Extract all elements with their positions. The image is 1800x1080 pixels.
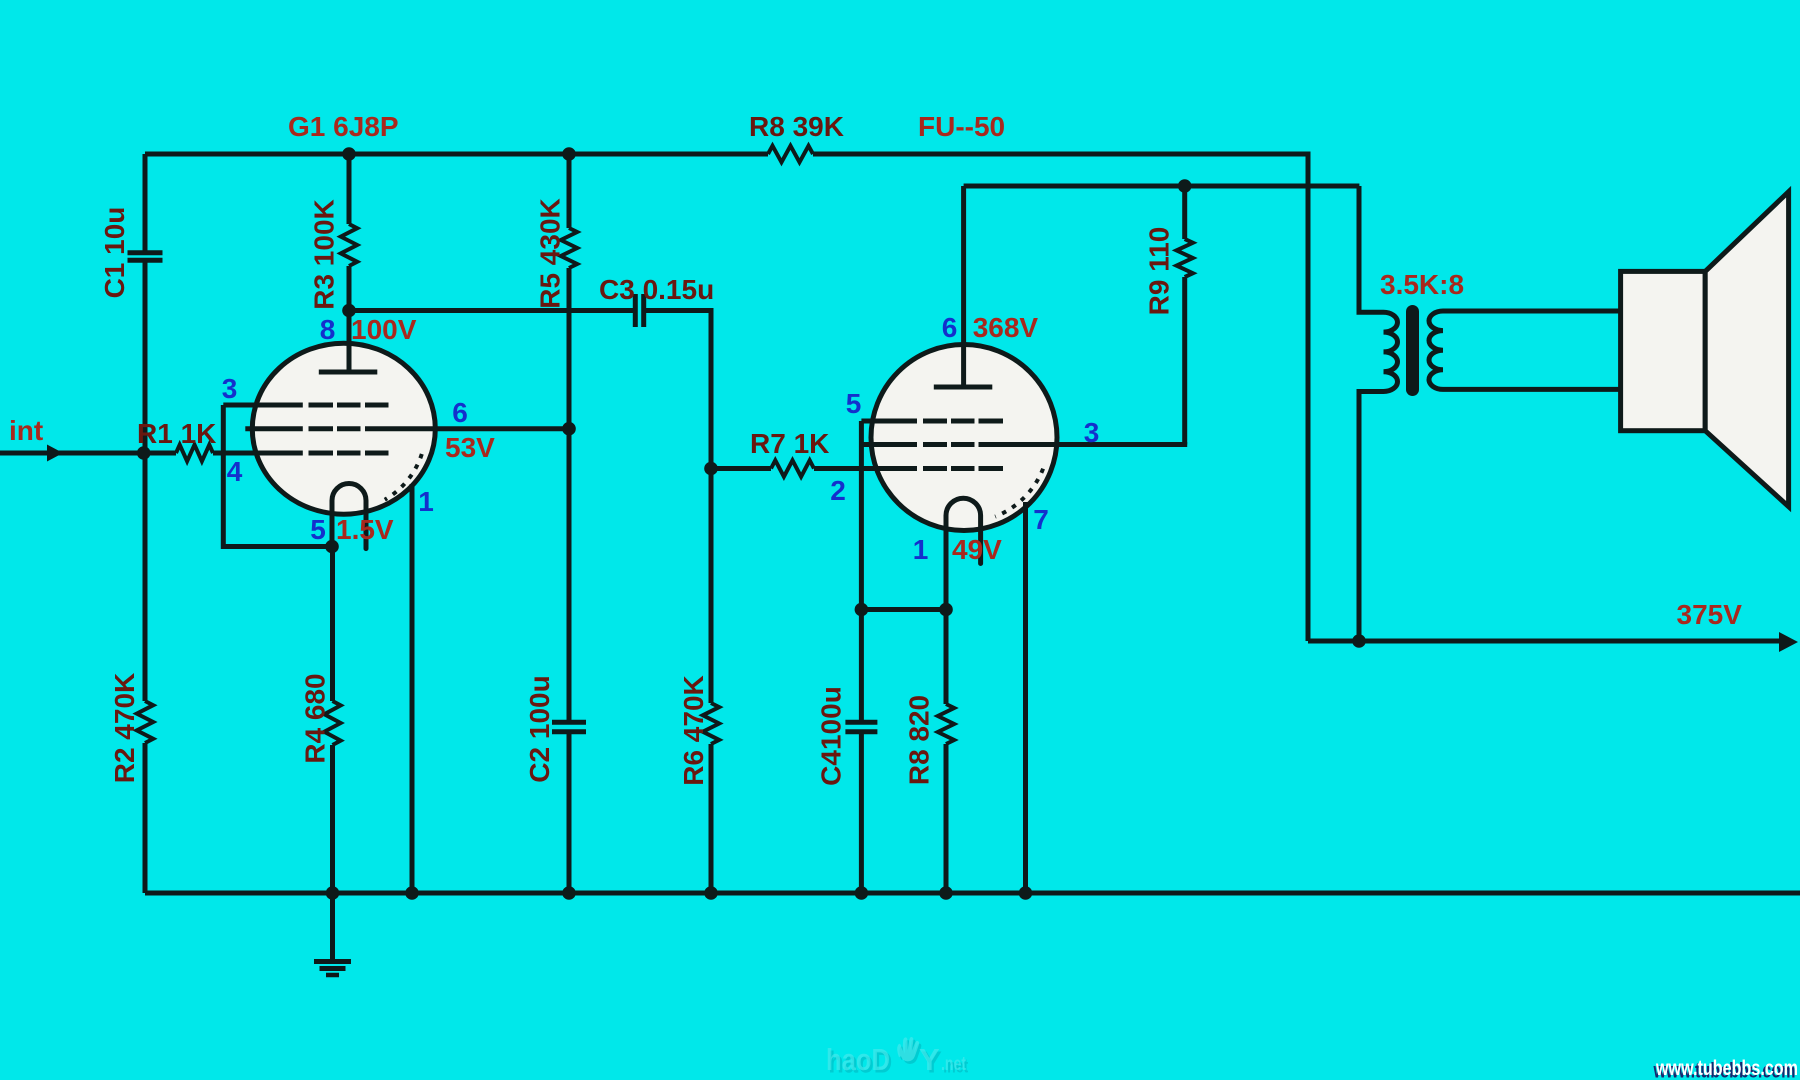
svg-text:2: 2 bbox=[830, 475, 846, 506]
speaker horn bbox=[1705, 192, 1788, 507]
wire R4 bottom lead bbox=[330, 745, 335, 893]
tube FU-50 grid row2 (pin 3) bbox=[862, 442, 975, 447]
svg-text:R3 100K: R3 100K bbox=[309, 199, 340, 310]
pin 7 label tube2 bbox=[1033, 504, 1049, 535]
resistor R6 zigzag bbox=[703, 703, 719, 744]
watermark www.tubebbs.com bbox=[1653, 1057, 1798, 1080]
wire R9 top lead bbox=[1182, 186, 1187, 239]
pin 8 label bbox=[320, 314, 336, 345]
wire R5 top lead bbox=[567, 154, 572, 228]
resistor R6 label bbox=[678, 675, 709, 786]
resistor R8 820 label bbox=[904, 695, 935, 785]
wire right B+ drop bbox=[1306, 152, 1311, 642]
wire C2 bottom lead bbox=[567, 734, 572, 893]
node rail C2 bbox=[562, 886, 576, 900]
svg-text:C4100u: C4100u bbox=[816, 686, 847, 786]
tube G1 designator bbox=[288, 111, 399, 142]
wire R3 top lead bbox=[347, 154, 352, 224]
svg-text:6: 6 bbox=[942, 312, 958, 343]
voltage 1.5V label bbox=[336, 514, 394, 545]
svg-text:4: 4 bbox=[227, 456, 243, 487]
wire R1 to tube1 grid bbox=[213, 451, 260, 456]
node rail R4 bbox=[326, 886, 340, 900]
svg-text:5: 5 bbox=[310, 514, 326, 545]
svg-text:100V: 100V bbox=[351, 314, 417, 345]
pin 3 label bbox=[222, 373, 238, 404]
wire R7 left lead bbox=[711, 466, 771, 471]
tube G1 cathode bbox=[332, 484, 366, 549]
capacitor C3 label bbox=[599, 274, 714, 305]
node R9 top bbox=[1178, 179, 1192, 193]
resistor R5 label bbox=[535, 198, 566, 309]
node OPT primary return bbox=[1352, 634, 1366, 648]
wire OPT primary bottom bbox=[1359, 392, 1384, 642]
svg-text:R8 39K: R8 39K bbox=[749, 111, 844, 142]
wire C4 top lead bbox=[859, 610, 864, 723]
capacitor C1 plates bbox=[128, 253, 163, 260]
wire input line bbox=[0, 451, 176, 456]
node rail C4 bbox=[855, 886, 869, 900]
transformer core bbox=[1406, 305, 1419, 396]
svg-text:3: 3 bbox=[1084, 417, 1100, 448]
transformer ratio label bbox=[1380, 269, 1464, 300]
capacitor C2 plates bbox=[552, 722, 586, 732]
wire tube2 pin7 drop bbox=[1023, 502, 1028, 893]
capacitor C4 plates bbox=[845, 722, 877, 732]
wire C1 bottom lead bbox=[143, 263, 148, 454]
svg-text:.net: .net bbox=[941, 1054, 966, 1075]
pin 5 label tube2 bbox=[846, 388, 862, 419]
wire C3 to R6 corner bbox=[644, 311, 711, 469]
svg-text:6: 6 bbox=[452, 397, 468, 428]
voltage 375V label bbox=[1677, 599, 1743, 630]
node 53V plate bbox=[562, 422, 576, 436]
tube G1 dashed arc bbox=[385, 454, 422, 500]
svg-text:375V: 375V bbox=[1677, 599, 1743, 630]
resistor R8 820 zigzag bbox=[938, 704, 954, 744]
wire tube1 pin3 bracket bbox=[223, 405, 332, 547]
svg-text:R6 470K: R6 470K bbox=[678, 675, 709, 786]
pin 3 label tube2 bbox=[1084, 417, 1100, 448]
svg-text:3.5K:8: 3.5K:8 bbox=[1380, 269, 1464, 300]
wire C4 bottom lead bbox=[859, 734, 864, 893]
wire R6 bottom lead bbox=[709, 744, 714, 893]
svg-text:C1 10u: C1 10u bbox=[99, 207, 130, 299]
svg-text:int: int bbox=[9, 415, 43, 446]
wire top rail right (B+ line) bbox=[813, 152, 1308, 157]
svg-text:8: 8 bbox=[320, 314, 336, 345]
wire R7 right lead bbox=[814, 466, 875, 471]
wire tube1 pin1 drop bbox=[410, 484, 415, 893]
wire OPT secondary bottom bbox=[1443, 387, 1621, 392]
capacitor C3 plates bbox=[635, 294, 643, 327]
wire R9 bottom lead bbox=[1182, 277, 1187, 445]
resistor R7 zigzag bbox=[771, 460, 814, 476]
wire C1 top lead bbox=[143, 154, 148, 251]
transformer primary coil bbox=[1384, 312, 1398, 391]
wire R6 node to zigzag bbox=[709, 469, 714, 704]
svg-text:1: 1 bbox=[418, 486, 434, 517]
svg-text:C3 0.15u: C3 0.15u bbox=[599, 274, 714, 305]
wire tube1 pin8 lead bbox=[347, 311, 352, 373]
pin 1 label bbox=[418, 486, 434, 517]
resistor R7 label bbox=[750, 428, 829, 459]
resistor R4 zigzag bbox=[324, 701, 340, 745]
voltage 49V label bbox=[952, 534, 1002, 565]
svg-text:R8 820: R8 820 bbox=[904, 695, 935, 785]
wire C2 top lead bbox=[567, 429, 572, 722]
node screen/C3 bbox=[342, 304, 356, 318]
resistor R1 label bbox=[137, 418, 216, 449]
tube FU-50 cathode bbox=[946, 498, 981, 609]
wire OPT secondary top bbox=[1443, 309, 1621, 314]
resistor R3 zigzag bbox=[341, 224, 357, 266]
svg-text:R4 680: R4 680 bbox=[300, 673, 331, 763]
resistor R3 label bbox=[309, 199, 340, 310]
resistor R8 39K zigzag bbox=[768, 146, 813, 162]
resistor R8 39K label bbox=[749, 111, 844, 142]
svg-text:368V: 368V bbox=[973, 312, 1039, 343]
wire tube2 pin6 lead bbox=[961, 186, 966, 387]
tube FU-50 grid row3 (pin 2) bbox=[875, 466, 1003, 471]
node rail R8 bbox=[939, 886, 953, 900]
svg-text:7: 7 bbox=[1033, 504, 1049, 535]
wire top rail left (B+ line) bbox=[145, 152, 768, 157]
node R3 top bbox=[342, 147, 356, 161]
tube G1 grid row2 (pin 6) bbox=[245, 426, 569, 431]
wire R8 bottom lead bbox=[944, 744, 949, 893]
wire R8 top lead bbox=[944, 610, 949, 705]
node rail pin7 bbox=[1019, 886, 1033, 900]
pin 1 label tube2 bbox=[913, 534, 929, 565]
voltage 100V label bbox=[351, 314, 417, 345]
tube G1 grid row3 (pin 4) bbox=[256, 451, 389, 456]
wire pin6 to OPT rail bbox=[964, 184, 1360, 189]
tube G1 6J8P envelope bbox=[252, 343, 435, 514]
output arrow 375V bbox=[1779, 632, 1798, 652]
watermark haoDIY.net bbox=[826, 1037, 969, 1080]
resistor R2 zigzag bbox=[137, 701, 153, 743]
svg-text:R7 1K: R7 1K bbox=[750, 428, 829, 459]
pin 6 label bbox=[452, 397, 468, 428]
wire R2 bottom lead bbox=[143, 743, 148, 893]
svg-text:5: 5 bbox=[846, 388, 862, 419]
svg-text:R2 470K: R2 470K bbox=[109, 673, 140, 784]
svg-text:Y: Y bbox=[919, 1042, 940, 1077]
node R6/R7 bbox=[704, 462, 718, 476]
svg-text:haoD: haoD bbox=[826, 1042, 890, 1077]
svg-text:FU--50: FU--50 bbox=[918, 111, 1005, 142]
ground bbox=[314, 893, 351, 975]
svg-text:G1 6J8P: G1 6J8P bbox=[288, 111, 399, 142]
wire tube2 pin3 line bbox=[979, 442, 1188, 447]
input arrow bbox=[47, 445, 63, 462]
resistor R9 zigzag bbox=[1177, 239, 1193, 277]
resistor R9 label bbox=[1144, 227, 1175, 316]
capacitor C1 label bbox=[99, 207, 130, 299]
tube FU-50 designator bbox=[918, 111, 1005, 142]
resistor R5 zigzag bbox=[561, 228, 577, 268]
node rail R6 bbox=[704, 886, 718, 900]
wire 375V rail bbox=[1308, 639, 1790, 644]
svg-text:C2 100u: C2 100u bbox=[524, 675, 555, 782]
pin 2 label tube2 bbox=[830, 475, 846, 506]
wire R4 top lead bbox=[330, 547, 335, 702]
wire R2 top lead bbox=[143, 453, 148, 701]
voltage 368V label bbox=[973, 312, 1039, 343]
transformer secondary coil bbox=[1429, 311, 1443, 389]
node rail pin1 bbox=[405, 886, 419, 900]
speaker box bbox=[1621, 271, 1706, 430]
tube FU-50 grid row1 (pin 5) bbox=[861, 419, 1003, 424]
pin 6 label tube2 bbox=[942, 312, 958, 343]
svg-text:53V: 53V bbox=[445, 432, 495, 463]
resistor R1 zigzag bbox=[176, 445, 213, 461]
wire tube2 pin5 bracket bbox=[859, 421, 864, 610]
input int label bbox=[9, 415, 43, 446]
svg-text:R9 110: R9 110 bbox=[1144, 227, 1175, 316]
svg-text:3: 3 bbox=[222, 373, 238, 404]
svg-text:49V: 49V bbox=[952, 534, 1002, 565]
resistor R4 label bbox=[300, 673, 331, 763]
tube FU-50 envelope bbox=[871, 345, 1057, 531]
pin 4 label bbox=[227, 456, 243, 487]
wire R5 bottom lead bbox=[567, 268, 572, 429]
wire OPT primary top bbox=[1359, 186, 1384, 312]
tube FU-50 dashed arc bbox=[995, 469, 1043, 517]
svg-text:1.5V: 1.5V bbox=[336, 514, 394, 545]
resistor R2 label bbox=[109, 673, 140, 784]
svg-text:R1 1K: R1 1K bbox=[137, 418, 216, 449]
pin 5 label bbox=[310, 514, 326, 545]
node C4 top bbox=[855, 603, 869, 617]
capacitor C2 label bbox=[524, 675, 555, 782]
wire R3 bottom lead bbox=[347, 266, 352, 311]
capacitor C4 label bbox=[816, 686, 847, 786]
node tube1 cathode junction bbox=[325, 540, 339, 554]
svg-text:R5 430K: R5 430K bbox=[535, 198, 566, 309]
node cathode R8 bbox=[939, 603, 953, 617]
voltage 53V label bbox=[445, 432, 495, 463]
node input junction bbox=[137, 446, 151, 460]
tube FU-50 plate bar bbox=[934, 385, 993, 390]
tube G1 grid row1 bbox=[223, 403, 388, 408]
svg-text:1: 1 bbox=[913, 534, 929, 565]
tube G1 plate bar bbox=[319, 370, 378, 375]
wire screen node to C3 bbox=[349, 308, 635, 313]
wire ground rail bbox=[145, 891, 1800, 896]
svg-text:www.tubebbs.com: www.tubebbs.com bbox=[1655, 1057, 1798, 1080]
node R5 top bbox=[562, 147, 576, 161]
wire cathode node link bbox=[861, 607, 946, 612]
